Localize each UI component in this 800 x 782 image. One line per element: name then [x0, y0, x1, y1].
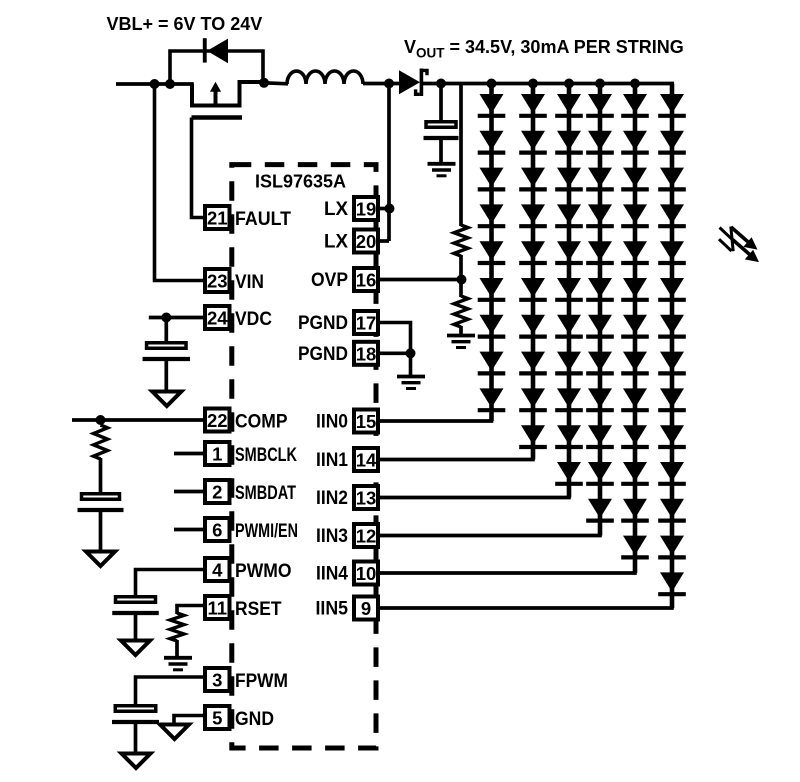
LED D3.3 — [557, 168, 581, 188]
wire: SMBCLK stub — [174, 452, 204, 456]
node: LED bus junction — [630, 79, 640, 89]
node: VDC junction — [161, 313, 171, 323]
LED D5.2 — [623, 131, 647, 151]
wire: VOUT rail to LED bus — [423, 82, 674, 86]
svg-text:10: 10 — [356, 563, 377, 584]
pin 19 LX — [354, 197, 378, 220]
LED D4.9 — [588, 388, 612, 408]
wire: R4 to C3 — [99, 458, 103, 493]
LED D1.1 — [480, 94, 504, 114]
LED D5.10 — [623, 425, 647, 445]
node: LX junction — [384, 79, 394, 89]
LED D1.5 — [480, 241, 504, 261]
LED D2.6 — [521, 278, 545, 298]
ground: VDC cap — [152, 392, 181, 407]
svg-text:ISL97635A: ISL97635A — [255, 172, 346, 192]
capacitor C4 (PWMO) — [112, 597, 159, 641]
pin 2 SMBDAT — [205, 480, 230, 503]
pin 6 PWMI/EN — [205, 518, 230, 541]
svg-text:SMBCLK: SMBCLK — [235, 445, 297, 466]
svg-text:PWMO: PWMO — [235, 561, 292, 582]
op-amp U1 ISL97635A (IC outline) — [232, 165, 376, 748]
LED D6.10 — [660, 425, 684, 445]
capacitor C2 (VDC) — [143, 318, 191, 393]
LED D4.1 — [588, 94, 612, 114]
LED D6.1 — [660, 94, 684, 114]
wire: IIN4 return — [379, 571, 637, 575]
svg-text:24: 24 — [207, 308, 228, 329]
LED D6.12 — [660, 499, 684, 519]
svg-text:IIN1: IIN1 — [316, 450, 348, 471]
svg-text:PGND: PGND — [298, 344, 348, 365]
wire: inductor to D2 — [363, 82, 400, 86]
node: D1 anode junction — [165, 79, 175, 89]
ground: COMP RC — [86, 552, 115, 567]
pin 16 OVP — [354, 268, 378, 291]
LED D2.2 — [521, 131, 545, 151]
LED D2.10 — [521, 425, 545, 445]
pin 11 RSET — [205, 596, 230, 619]
LED D1.8 — [480, 352, 504, 372]
wire: LX pins to rail — [387, 84, 391, 242]
svg-text:COMP: COMP — [235, 411, 288, 432]
svg-text:11: 11 — [207, 598, 227, 619]
LED D6.5 — [660, 241, 684, 261]
LED D1.3 — [480, 168, 504, 188]
wire: OVP divider tap from rail — [459, 84, 463, 227]
svg-text:IIN4: IIN4 — [316, 564, 348, 585]
LED D2.4 — [521, 204, 545, 224]
svg-text:VBL+ = 6V TO 24V: VBL+ = 6V TO 24V — [107, 14, 263, 34]
svg-text:VIN: VIN — [235, 272, 264, 293]
LED D3.8 — [557, 352, 581, 372]
LED D4.8 — [588, 352, 612, 372]
pin 23 VIN — [205, 269, 230, 292]
LED D3.10 — [557, 425, 581, 445]
LED D2.3 — [521, 168, 545, 188]
wire: PWMO pin 4 — [136, 570, 205, 597]
wire: pin 19 stub — [379, 207, 389, 211]
node: Q1 drain junction — [259, 78, 269, 88]
LED D4.10 — [588, 425, 612, 445]
svg-text:IIN5: IIN5 — [316, 599, 349, 620]
svg-text:2: 2 — [212, 482, 222, 503]
diode D1 (bypass) — [170, 38, 263, 84]
pin 4 PWMO — [205, 558, 230, 581]
ground: PGND — [397, 375, 425, 379]
LED D5.12 — [623, 499, 647, 519]
svg-text:13: 13 — [356, 488, 377, 509]
wire: IIN0 return — [379, 419, 493, 423]
LED D4.5 — [588, 241, 612, 261]
pin 15 IIN0 — [354, 410, 378, 433]
svg-text:PWMI/EN: PWMI/EN — [235, 521, 298, 542]
transistor Q1 (PMOS pass FET) — [192, 82, 266, 118]
svg-text:VDC: VDC — [235, 309, 272, 330]
svg-text:17: 17 — [356, 313, 377, 334]
node: LED bus junction — [564, 79, 574, 89]
capacitor C5 (FPWM) — [112, 706, 159, 754]
wire: pin 20 stub — [379, 239, 389, 243]
pin 13 IIN2 — [354, 486, 378, 509]
svg-text:5: 5 — [212, 708, 222, 729]
ground: PWMO cap — [121, 641, 150, 656]
pin 21 FAULT — [205, 206, 230, 229]
LED D4.3 — [588, 168, 612, 188]
LED string 3 (11 LEDs) — [555, 84, 583, 498]
node: PGND junction — [406, 348, 416, 358]
LED string 5 (13 LEDs) — [621, 84, 649, 574]
svg-text:14: 14 — [356, 450, 377, 471]
LED D6.8 — [660, 352, 684, 372]
LED D1.2 — [480, 131, 504, 151]
svg-text:GND: GND — [235, 709, 274, 730]
ground: RSET — [164, 656, 192, 660]
node: VIN junction — [150, 79, 160, 89]
svg-text:VOUT = 34.5V, 30mA PER STRING: VOUT = 34.5V, 30mA PER STRING — [404, 37, 684, 61]
LED string 1 (9 LEDs) — [478, 84, 506, 422]
resistor R3 (OVP lower) — [454, 296, 468, 327]
svg-text:FPWM: FPWM — [235, 671, 288, 692]
LED string 2 (10 LEDs) — [519, 84, 547, 460]
LED D5.5 — [623, 241, 647, 261]
node: OVP tap — [457, 275, 467, 285]
pin 10 IIN4 — [354, 562, 378, 585]
svg-text:4: 4 — [212, 560, 223, 581]
svg-text:RSET: RSET — [235, 599, 282, 620]
LED string 6 (14 LEDs) — [658, 84, 686, 609]
wire: VBL+ input rail — [116, 82, 194, 86]
wire: VDC pin 24 — [149, 316, 204, 320]
wire: SMBDAT stub — [174, 490, 204, 494]
LED D6.4 — [660, 204, 684, 224]
LED D2.1 — [521, 94, 545, 114]
node: output cap junction — [436, 79, 446, 89]
pin 18 PGND — [354, 342, 378, 365]
svg-text:16: 16 — [356, 270, 377, 291]
wire: R3 to ground — [459, 326, 463, 334]
pin 3 FPWM — [205, 668, 230, 691]
diode D2 (schottky rectifier) — [399, 69, 427, 97]
svg-text:20: 20 — [356, 231, 377, 252]
wire: PGND pin 18 stub — [379, 351, 411, 355]
svg-text:22: 22 — [207, 410, 228, 431]
svg-text:21: 21 — [207, 208, 228, 229]
node: COMP junction — [96, 415, 106, 425]
LED D4.11 — [588, 462, 612, 482]
node: LX pin 19 junction — [385, 204, 395, 214]
pin 1 SMBCLK — [205, 442, 230, 465]
LED D1.6 — [480, 278, 504, 298]
svg-text:3: 3 — [212, 670, 222, 691]
ground: output cap — [428, 162, 456, 166]
LED D1.9 — [480, 388, 504, 408]
resistor R2 (OVP upper) — [454, 225, 468, 256]
wire: R5 to ground — [175, 640, 179, 657]
svg-text:15: 15 — [356, 411, 377, 432]
svg-text:18: 18 — [356, 344, 377, 365]
wire: Q1 gate to FAULT pin 21 — [192, 118, 204, 218]
LED D6.14 — [660, 572, 684, 592]
LED D5.4 — [623, 204, 647, 224]
LED D4.4 — [588, 204, 612, 224]
svg-text:19: 19 — [356, 199, 377, 220]
LED D5.6 — [623, 278, 647, 298]
LED D5.7 — [623, 315, 647, 335]
svg-text:SMBDAT: SMBDAT — [235, 483, 296, 504]
pin 5 GND — [205, 706, 230, 729]
wire: COMP pin 22 — [72, 418, 204, 422]
wire: GND pin 5 — [174, 716, 204, 726]
pin 9 IIN5 — [354, 597, 378, 620]
svg-text:LX: LX — [324, 232, 348, 253]
LED D5.8 — [623, 352, 647, 372]
svg-text:LX: LX — [324, 199, 348, 220]
LED D6.2 — [660, 131, 684, 151]
pin 17 PGND — [354, 311, 378, 334]
LED D3.5 — [557, 241, 581, 261]
LED D6.3 — [660, 168, 684, 188]
pin 24 VDC — [205, 306, 230, 329]
LED D5.1 — [623, 94, 647, 114]
svg-text:6: 6 — [212, 520, 222, 541]
wire: IIN5 return — [379, 606, 674, 610]
LED D3.6 — [557, 278, 581, 298]
LED D3.7 — [557, 315, 581, 335]
wire: IIN2 return — [379, 496, 571, 500]
LED D4.7 — [588, 315, 612, 335]
svg-text:23: 23 — [207, 271, 228, 292]
LED D4.12 — [588, 499, 612, 519]
LED light emission arrows — [719, 227, 759, 263]
LED D3.9 — [557, 388, 581, 408]
LED D3.11 — [557, 462, 581, 482]
svg-text:IIN0: IIN0 — [316, 412, 348, 433]
wire: FPWM pin 3 — [136, 677, 205, 705]
node: LED bus junction — [528, 79, 538, 89]
capacitor C3 (COMP) — [78, 494, 124, 552]
LED D4.2 — [588, 131, 612, 151]
LED D3.2 — [557, 131, 581, 151]
LED D5.3 — [623, 168, 647, 188]
LED D2.7 — [521, 315, 545, 335]
pin 20 LX — [354, 230, 378, 253]
LED D2.8 — [521, 352, 545, 372]
pin 12 IIN3 — [354, 524, 378, 547]
wire: RSET pin 11 — [177, 606, 204, 615]
svg-text:12: 12 — [356, 526, 377, 547]
LED D5.9 — [623, 388, 647, 408]
LED D6.6 — [660, 278, 684, 298]
svg-text:9: 9 — [361, 598, 371, 619]
LED D3.4 — [557, 204, 581, 224]
capacitor C1 (output) — [424, 84, 459, 164]
wire: R2 to R3 — [459, 255, 463, 297]
inductor L1 — [287, 71, 363, 84]
svg-text:PGND: PGND — [298, 313, 348, 334]
LED D3.1 — [557, 94, 581, 114]
ground: FPWM cap — [122, 754, 151, 769]
svg-text:OVP: OVP — [311, 270, 348, 291]
wire: PWMI/EN stub — [174, 528, 204, 532]
ground: GND pin — [160, 725, 189, 740]
LED D6.11 — [660, 462, 684, 482]
wire: VIN drop to pin 23 — [155, 84, 204, 281]
LED string 4 (12 LEDs) — [586, 84, 614, 536]
svg-text:1: 1 — [212, 444, 222, 465]
wire: PGND pin 17 stub — [379, 323, 411, 376]
svg-text:FAULT: FAULT — [235, 209, 291, 230]
pin 14 IIN1 — [354, 448, 378, 471]
LED D6.7 — [660, 315, 684, 335]
wire: IIN1 return — [379, 458, 535, 462]
ground: OVP divider — [447, 334, 475, 338]
LED D1.7 — [480, 315, 504, 335]
pin 22 COMP — [205, 409, 230, 432]
node: LED bus junction — [487, 79, 497, 89]
resistor R5 (RSET) — [170, 613, 184, 641]
wire: IIN3 return — [379, 534, 602, 538]
wire: OVP pin 16 to divider — [379, 278, 462, 282]
resistor R4 (COMP) — [94, 425, 108, 459]
LED D5.11 — [623, 462, 647, 482]
node: LED bus junction — [595, 79, 605, 89]
svg-text:IIN3: IIN3 — [316, 526, 348, 547]
LED D1.4 — [480, 204, 504, 224]
wire: Q1 to inductor — [264, 83, 288, 84]
LED D6.9 — [660, 388, 684, 408]
LED D6.13 — [660, 536, 684, 556]
LED D5.13 — [623, 536, 647, 556]
LED D2.5 — [521, 241, 545, 261]
LED D4.6 — [588, 278, 612, 298]
svg-text:IIN2: IIN2 — [316, 488, 348, 509]
LED D2.9 — [521, 388, 545, 408]
